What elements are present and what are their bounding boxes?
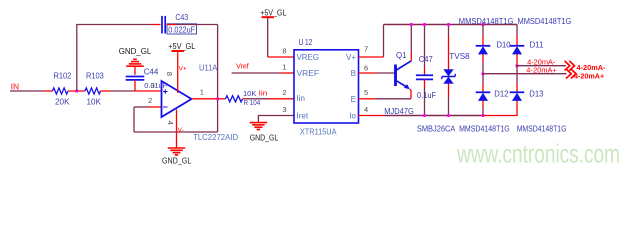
svg-text:E: E — [351, 95, 356, 104]
svg-text:V+: V+ — [179, 65, 187, 72]
diode D13 — [510, 91, 525, 93]
svg-text:Iret: Iret — [297, 112, 309, 121]
svg-text:0.022uF: 0.022uF — [168, 26, 195, 35]
svg-text:+5V_GL: +5V_GL — [168, 42, 196, 51]
svg-text:8: 8 — [282, 46, 286, 55]
wire op-amp output — [192, 98, 218, 100]
svg-text:D13: D13 — [529, 90, 544, 99]
wire IN to R102 — [10, 90, 44, 92]
svg-text:C44: C44 — [144, 68, 159, 77]
wire U12 pin7 V+ riser to top bus — [359, 56, 384, 58]
svg-text:2: 2 — [282, 88, 286, 97]
svg-text:0.1uF: 0.1uF — [417, 91, 436, 100]
svg-text:TVS8: TVS8 — [449, 52, 470, 61]
wire C43 to output node — [167, 24, 176, 26]
svg-text:8: 8 — [165, 72, 174, 76]
C43 value box 0.022uF — [167, 24, 197, 34]
svg-text:MMSD4148T1G: MMSD4148T1G — [517, 124, 567, 133]
svg-text:0.01uF: 0.01uF — [144, 83, 167, 90]
resistor R103 — [85, 88, 101, 94]
ground GND_GL at U12 — [250, 122, 268, 124]
capacitor C47 — [424, 25, 426, 68]
svg-text:10K: 10K — [87, 98, 102, 107]
svg-text:4: 4 — [166, 121, 175, 125]
svg-text:1: 1 — [200, 87, 204, 96]
wire U12 pin3 Iret to ground — [258, 116, 294, 123]
svg-text:4-20mA-: 4-20mA- — [527, 60, 556, 67]
svg-text:TLC2272AID: TLC2272AID — [193, 133, 238, 142]
svg-text:Q1: Q1 — [396, 51, 407, 60]
wire 4-20mA+ — [483, 73, 567, 75]
svg-text:C43: C43 — [175, 13, 188, 22]
IC U12 XTR115UA — [294, 50, 359, 123]
svg-text:D10: D10 — [497, 40, 512, 49]
wire R102 to R103 — [68, 90, 85, 92]
wire Q1 emitter to pin5 row — [410, 89, 411, 99]
svg-text:Vref: Vref — [236, 61, 249, 70]
diode D10 — [481, 23, 484, 26]
svg-text:6: 6 — [364, 63, 368, 72]
capacitor C44 — [126, 76, 145, 78]
port chevron 4-20mA+ — [566, 69, 576, 79]
svg-text:B: B — [351, 69, 356, 78]
wire 4-20mA- — [517, 65, 566, 67]
ground GND_GL below op-amp — [168, 147, 186, 149]
wire top bus — [384, 24, 518, 26]
svg-text:XTR115UA: XTR115UA — [300, 128, 337, 137]
svg-text:1: 1 — [282, 62, 286, 71]
svg-text:www.cntronics.com: www.cntronics.com — [456, 139, 620, 169]
wire D13 anode to bottom bus corner — [483, 101, 517, 116]
port chevron 4-20mA- — [565, 61, 575, 71]
svg-text:R 104: R 104 — [244, 98, 261, 107]
resistor R104 — [226, 96, 243, 102]
resistor R102 — [53, 88, 69, 94]
svg-text:V+: V+ — [346, 53, 356, 62]
svg-text:5: 5 — [364, 88, 368, 97]
svg-text:V-: V- — [178, 127, 184, 134]
svg-text:U 12: U 12 — [299, 38, 313, 47]
svg-text:Iin: Iin — [259, 89, 268, 98]
op-amp U11A — [162, 81, 192, 117]
node output junction — [216, 97, 219, 100]
svg-text:Io: Io — [349, 112, 356, 121]
svg-text:SMBJ26CA: SMBJ26CA — [417, 124, 456, 133]
svg-text:R102: R102 — [54, 71, 72, 80]
svg-text:D12: D12 — [494, 90, 509, 99]
svg-text:MMSD4148T1G: MMSD4148T1G — [459, 124, 510, 133]
wire D10 anode to node — [482, 54, 484, 62]
svg-text:4-20mA+: 4-20mA+ — [526, 68, 557, 75]
svg-text:GND_GL: GND_GL — [119, 47, 152, 56]
wire Q1 collector to bus — [410, 53, 412, 61]
wire U12 pin4 Io bottom bus — [359, 115, 385, 117]
svg-text:IN: IN — [11, 82, 20, 91]
svg-text:7: 7 — [364, 44, 368, 53]
svg-text:4: 4 — [364, 105, 368, 114]
svg-text:GND_GL: GND_GL — [250, 134, 279, 143]
node 4-20mA+ junction — [481, 72, 484, 75]
diode D11 — [516, 25, 518, 36]
diode D12 — [476, 91, 491, 93]
svg-text:MMSD4148T1G: MMSD4148T1G — [518, 17, 572, 26]
svg-text:MJD47G: MJD47G — [384, 107, 414, 116]
svg-text:10K: 10K — [243, 89, 256, 98]
svg-text:Iin: Iin — [297, 94, 305, 103]
node junction R102/R103/C43 — [75, 89, 78, 92]
node 4-20mA- junction — [515, 64, 518, 67]
wire R103 to opamp + input — [101, 90, 111, 92]
svg-text:3: 3 — [151, 81, 155, 90]
svg-text:2: 2 — [148, 96, 152, 105]
svg-text:U11A: U11A — [199, 64, 218, 73]
svg-text:GND_GL: GND_GL — [162, 157, 192, 166]
svg-text:3: 3 — [282, 105, 286, 114]
svg-text:D11: D11 — [530, 40, 545, 49]
svg-text:MMSD4148T1G: MMSD4148T1G — [459, 17, 514, 26]
svg-text:4-20mA+: 4-20mA+ — [574, 71, 605, 80]
capacitor C43 — [161, 16, 163, 34]
TVS diode TVS8 — [448, 25, 450, 36]
opamp V- stub to ground — [176, 110, 178, 148]
wire U12 pin6 B to Q1 base — [359, 72, 377, 74]
svg-text:20K: 20K — [55, 98, 70, 107]
wire R104 to U12 pin 2 — [243, 98, 247, 100]
svg-text:R103: R103 — [86, 71, 104, 80]
wire feedback bottom — [134, 131, 218, 133]
svg-text:C47: C47 — [419, 55, 434, 64]
wire riser junction to C43 loop — [77, 25, 152, 92]
svg-text:VREF: VREF — [297, 69, 320, 78]
svg-text:VREG: VREG — [297, 53, 320, 62]
transistor Q1 — [394, 65, 397, 87]
